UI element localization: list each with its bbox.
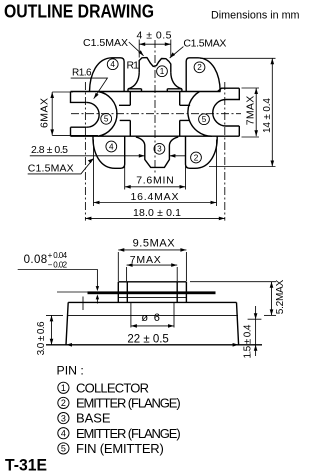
svg-text:R1.6: R1.6 [72,68,92,79]
svg-text:COLLECTOR: COLLECTOR [76,380,149,395]
svg-text:1: 1 [61,383,66,393]
svg-text:2: 2 [197,63,202,72]
svg-text:FIN (EMITTER): FIN (EMITTER) [76,441,164,456]
svg-text:ø 6: ø 6 [141,312,160,324]
svg-text:22 ± 0.5: 22 ± 0.5 [127,334,168,346]
svg-text:2: 2 [194,153,199,162]
svg-text:OUTLINE DRAWING: OUTLINE DRAWING [4,2,154,22]
svg-text:0.08: 0.08 [24,254,48,266]
svg-text:5: 5 [104,115,109,124]
svg-text:EMITTER (FLANGE): EMITTER (FLANGE) [76,396,181,411]
svg-text:4: 4 [110,60,115,69]
svg-text:C1.5MAX: C1.5MAX [28,163,74,175]
svg-text:− 0.02: − 0.02 [48,260,68,269]
svg-text:1: 1 [160,67,165,76]
svg-text:4: 4 [109,142,114,151]
svg-text:T-31E: T-31E [5,457,47,475]
svg-text:7.6MIN: 7.6MIN [136,175,174,187]
svg-text:3.0 ± 0.6: 3.0 ± 0.6 [36,321,47,355]
svg-text:4: 4 [61,428,66,438]
svg-text:7MAX: 7MAX [245,96,257,126]
svg-text:4 ± 0.5: 4 ± 0.5 [137,30,172,42]
svg-text:7MAX: 7MAX [130,254,161,266]
svg-text:2: 2 [61,398,66,408]
svg-text:PIN :: PIN : [57,364,84,378]
svg-text:2.8 ± 0.5: 2.8 ± 0.5 [31,144,68,156]
svg-text:9.5MAX: 9.5MAX [133,238,176,250]
svg-text:+ 0.04: + 0.04 [48,251,68,260]
svg-text:EMITTER (FLANGE): EMITTER (FLANGE) [76,426,181,441]
svg-text:18.0 ± 0.1: 18.0 ± 0.1 [133,207,181,219]
svg-text:3: 3 [61,413,66,423]
svg-text:5.2MAX: 5.2MAX [275,279,286,314]
svg-text:C1.5MAX: C1.5MAX [83,37,128,49]
svg-text:6MAX: 6MAX [39,98,51,128]
svg-text:1.5 ± 0.4: 1.5 ± 0.4 [243,324,254,358]
svg-text:C1.5MAX: C1.5MAX [183,37,226,49]
svg-text:14 ± 0.4: 14 ± 0.4 [262,98,273,133]
svg-text:5: 5 [61,444,66,454]
svg-text:16.4MAX: 16.4MAX [131,191,179,203]
svg-text:3: 3 [157,145,162,154]
svg-text:R1: R1 [127,60,140,72]
svg-text:BASE: BASE [76,411,111,426]
svg-text:Dimensions in mm: Dimensions in mm [211,10,300,22]
svg-text:5: 5 [202,115,207,124]
